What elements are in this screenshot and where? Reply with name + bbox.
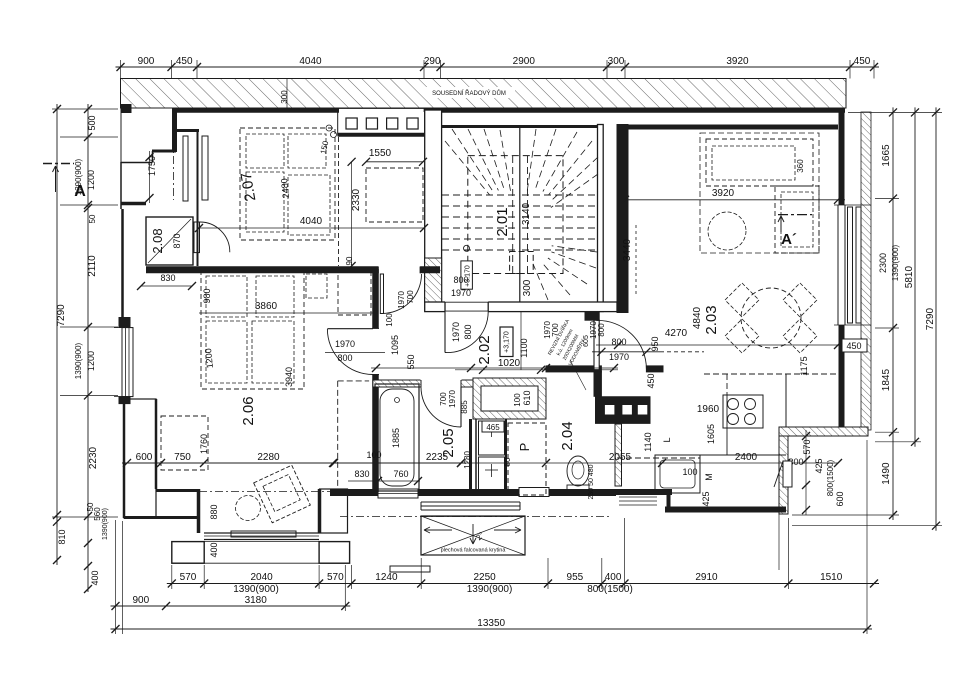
svg-text:900: 900 [138, 56, 155, 67]
svg-text:300: 300 [608, 56, 625, 67]
wall left between windows [119, 318, 130, 328]
dim 4270 [596, 344, 845, 346]
svg-text:7290: 7290 [56, 304, 67, 327]
wall niche top [152, 150, 176, 153]
right ext lines [848, 111, 942, 113]
svg-text:425: 425 [814, 458, 824, 473]
svg-text:570: 570 [327, 572, 344, 583]
dim chain bottom 4 [111, 628, 873, 630]
svg-text:1140: 1140 [643, 432, 653, 451]
svg-text:P: P [517, 443, 532, 452]
svg-text:3860: 3860 [255, 301, 278, 312]
wardrobe 2.06 [161, 416, 208, 470]
bottom ext lines [171, 565, 173, 589]
label 2.08 box [146, 217, 193, 265]
dim 4040 room [199, 227, 424, 229]
wall bath top hatched [373, 380, 473, 387]
svg-text:7290: 7290 [925, 308, 936, 331]
svg-text:2250: 2250 [473, 572, 496, 583]
window bottom 760 [378, 489, 418, 498]
svg-text:950: 950 [650, 336, 660, 351]
wall marks living [699, 300, 701, 406]
svg-text:290: 290 [424, 56, 441, 67]
svg-text:50: 50 [88, 214, 97, 223]
label 450 box right [842, 339, 867, 352]
svg-text:2480: 2480 [279, 178, 291, 199]
wall 2.07 left [197, 129, 199, 266]
party wall end cap [121, 104, 132, 113]
ext line bay left [121, 521, 123, 634]
svg-text:570: 570 [802, 439, 812, 454]
door 2.08 arc [200, 222, 230, 252]
svg-text:980: 980 [202, 288, 212, 303]
wardrobe 2.07 [366, 168, 423, 222]
dim chain left outer [56, 104, 58, 527]
hall dim line [371, 367, 618, 369]
svg-text:885: 885 [460, 400, 469, 414]
exit steps [619, 496, 657, 498]
shower lines 2.05 [380, 563, 420, 565]
dim left lower [87, 516, 89, 592]
svg-text:800: 800 [597, 323, 606, 337]
svg-text:450: 450 [646, 373, 656, 388]
svg-text:300: 300 [522, 279, 533, 296]
door hall nook 830 [377, 267, 379, 274]
wall left lower bottom [124, 516, 199, 519]
dim row 2.06 bottom [122, 462, 466, 464]
wall living top [617, 125, 838, 130]
svg-text:1390(900): 1390(900) [891, 244, 900, 281]
svg-text:3920: 3920 [726, 56, 749, 67]
kitchen door right [783, 461, 792, 487]
entrance steps [421, 501, 520, 503]
wall left upper [172, 108, 177, 152]
svg-text:1490: 1490 [881, 462, 892, 485]
svg-text:800: 800 [463, 324, 473, 339]
wall kitchen west hatched [615, 424, 622, 486]
wall stair right [598, 125, 604, 312]
svg-text:955: 955 [567, 572, 584, 583]
svg-text:3180: 3180 [245, 595, 268, 606]
dimension chain top [116, 66, 880, 68]
svg-text:450: 450 [854, 56, 871, 67]
svg-text:1100: 1100 [519, 338, 529, 357]
extension lines top [120, 60, 122, 79]
svg-text:2.08: 2.08 [150, 228, 165, 253]
svg-text:1550: 1550 [369, 148, 392, 159]
door 2.06-hall [372, 328, 379, 374]
svg-text:800: 800 [337, 353, 352, 363]
svg-text:800: 800 [611, 337, 626, 347]
svg-text:1200: 1200 [86, 170, 96, 190]
svg-text:750: 750 [174, 452, 191, 463]
svg-text:1970: 1970 [448, 390, 457, 408]
svg-text:2040: 2040 [250, 572, 273, 583]
dim 3860 [199, 312, 375, 314]
svg-text:A´: A´ [781, 231, 797, 248]
porch pillar left [172, 542, 204, 564]
high window strip box [338, 108, 425, 135]
svg-text:90: 90 [345, 256, 354, 265]
svg-text:1750: 1750 [147, 156, 157, 176]
door bath 2.05 [421, 379, 462, 389]
svg-text:4840: 4840 [692, 306, 703, 329]
plant circle [708, 212, 746, 250]
svg-text:1390(900): 1390(900) [74, 158, 83, 195]
kitchen lower counter [617, 457, 700, 459]
dim 1550 wardrobe [366, 161, 423, 163]
svg-text:610: 610 [522, 390, 532, 405]
svg-text:400: 400 [209, 542, 219, 557]
svg-text:1845: 1845 [881, 369, 892, 392]
kitchen counter dashes [704, 373, 838, 375]
wall 2.04 left partition [505, 419, 507, 495]
wardrobe 2.06 corner [338, 272, 371, 315]
svg-text:1970: 1970 [335, 339, 355, 349]
svg-text:800(1500): 800(1500) [587, 584, 633, 595]
svg-text:400: 400 [605, 572, 622, 583]
svg-text:605: 605 [583, 335, 590, 347]
closet left dashed [338, 137, 340, 266]
entrance door gap [519, 488, 549, 497]
porch slab lines [172, 541, 350, 543]
canopy arrows [424, 529, 452, 531]
svg-text:1970: 1970 [451, 288, 471, 298]
svg-text:760: 760 [393, 469, 408, 479]
wall living left [617, 125, 628, 313]
insulation strip right [861, 112, 871, 430]
dim chain left inner [87, 104, 89, 521]
label 465 box [482, 421, 504, 432]
svg-text:1240: 1240 [375, 572, 398, 583]
svg-text:450: 450 [176, 56, 193, 67]
svg-text:2055: 2055 [609, 452, 632, 463]
svg-text:2.06: 2.06 [240, 396, 257, 425]
svg-text:1970: 1970 [609, 352, 629, 362]
svg-text:1970: 1970 [589, 321, 598, 339]
wall stair bottom [425, 302, 617, 312]
cooktop [723, 395, 763, 428]
svg-text:4270: 4270 [665, 328, 688, 339]
dim 3920 sofa [618, 199, 845, 201]
washer P [508, 423, 546, 495]
wc 2.04 [567, 456, 589, 486]
bed room 2.07 [240, 128, 335, 240]
svg-text:2300: 2300 [878, 253, 888, 273]
wall bottom kitchen left [609, 489, 672, 495]
porch pillar right [319, 542, 350, 564]
dim chain bottom 1 [167, 583, 879, 585]
wall jamb below window [119, 397, 130, 404]
svg-text:M: M [704, 473, 714, 481]
wall 2.04 top [546, 366, 601, 372]
sofa 2.03 [706, 139, 813, 186]
wall step bottom right [779, 427, 868, 436]
svg-text:465: 465 [486, 423, 500, 432]
svg-text:2235: 2235 [426, 452, 449, 463]
svg-text:+3,170: +3,170 [504, 331, 511, 353]
wall bottom center [330, 489, 616, 496]
svg-text:1020: 1020 [498, 358, 521, 369]
hall SE corner wall [585, 312, 599, 321]
svg-text:2.01: 2.01 [494, 207, 511, 236]
svg-text:900: 900 [132, 595, 149, 606]
svg-text:1390(900): 1390(900) [233, 584, 279, 595]
svg-text:1175: 1175 [799, 356, 809, 375]
label +3,170 box [500, 327, 513, 357]
wall left mid [121, 209, 124, 324]
svg-text:1095: 1095 [390, 335, 400, 355]
dining set [741, 288, 801, 348]
wall 2.05 right [469, 419, 472, 492]
svg-text:1510: 1510 [820, 572, 843, 583]
armchair 2.06 [254, 465, 311, 523]
svg-text:3920: 3920 [712, 188, 735, 199]
wall bottom kitchen right [665, 507, 786, 513]
svg-text:560: 560 [93, 507, 102, 521]
dim 500 marks [52, 108, 118, 110]
high window squares [346, 118, 357, 129]
svg-text:800: 800 [453, 275, 468, 285]
wall left lower block [123, 397, 126, 518]
svg-text:4040: 4040 [299, 56, 322, 67]
svg-text:13350: 13350 [477, 618, 505, 629]
svg-text:2230: 2230 [88, 446, 99, 469]
sink cabinet 2.05 [479, 421, 505, 455]
dim chain right 3 [935, 107, 937, 530]
dim 1750 line [149, 151, 151, 203]
section marker A2 [778, 214, 812, 216]
glazing bar 1 [183, 136, 188, 201]
svg-text:2400: 2400 [735, 452, 758, 463]
svg-text:3940: 3940 [284, 367, 294, 387]
dim chain bottom 3 [111, 605, 351, 607]
wall top exterior left [172, 108, 339, 113]
radiator valve circles [326, 125, 332, 131]
svg-text:2280: 2280 [257, 452, 280, 463]
door mat 2.06 [231, 531, 296, 537]
kitchen counter right [785, 374, 787, 427]
svg-text:1970: 1970 [451, 322, 461, 342]
svg-text:2110: 2110 [87, 255, 98, 277]
door hall-corridor leaf [594, 320, 599, 370]
wall stair left [425, 110, 442, 302]
svg-text:2.03: 2.03 [703, 305, 720, 334]
terrace door 2040 [204, 532, 319, 534]
door gap stair-hall [445, 301, 488, 314]
svg-text:5810: 5810 [904, 266, 915, 289]
svg-text:880: 880 [209, 504, 219, 519]
svg-text:100: 100 [385, 313, 394, 327]
svg-text:300: 300 [280, 90, 289, 104]
svg-text:700: 700 [439, 392, 448, 406]
svg-text:4040: 4040 [300, 216, 323, 227]
glazing bar 2 [202, 136, 208, 200]
bedside table 2.06 [306, 274, 327, 298]
svg-text:600: 600 [136, 452, 153, 463]
svg-text:1200: 1200 [86, 351, 96, 371]
dim 830 760 bottom [348, 480, 420, 482]
door hall-corridor arc [597, 320, 647, 368]
window right 2300 [837, 205, 839, 325]
bed room 2.06 [201, 269, 304, 389]
svg-text:1970: 1970 [397, 291, 406, 309]
axis dashdot entrance [173, 140, 175, 200]
window left 1200 [122, 328, 133, 397]
wall 2.07 bottom / 2.06 top [146, 266, 378, 273]
door stair-hall arc [444, 312, 446, 353]
dashed zone 2.06 SE [337, 381, 339, 488]
hatched band neighbour house [121, 79, 847, 109]
section dashdot bay [199, 491, 348, 493]
svg-text:500: 500 [87, 115, 97, 130]
shaft walls hatched [473, 378, 546, 419]
svg-text:2330: 2330 [351, 188, 362, 211]
svg-text:550: 550 [406, 354, 416, 369]
svg-text:1960: 1960 [697, 404, 720, 415]
section marker A1 [43, 163, 74, 165]
wall right upper [839, 111, 845, 205]
svg-text:800(1500): 800(1500) [826, 459, 835, 496]
svg-text:570: 570 [180, 572, 197, 583]
svg-text:450: 450 [846, 341, 861, 351]
svg-text:100: 100 [513, 393, 522, 407]
svg-text:2.02: 2.02 [476, 335, 493, 364]
svg-text:400: 400 [90, 570, 100, 585]
svg-text:1390(900): 1390(900) [74, 342, 83, 379]
dim chain right 1 [892, 107, 894, 520]
svg-text:1390(900): 1390(900) [102, 508, 109, 540]
porch canopy [421, 516, 525, 555]
svg-text:425: 425 [701, 491, 711, 506]
door 2.08 leaf [194, 222, 200, 253]
wall stair top [442, 125, 599, 128]
svg-text:1665: 1665 [881, 144, 892, 167]
bathtub [375, 384, 419, 491]
svg-text:700: 700 [406, 290, 415, 304]
dim chain right 2 [914, 107, 916, 446]
svg-text:600: 600 [835, 491, 845, 506]
wall top exterior right [424, 108, 845, 113]
svg-text:870: 870 [172, 233, 182, 248]
svg-text:830: 830 [160, 273, 175, 283]
svg-text:1605: 1605 [706, 424, 716, 444]
wall entrance niche [152, 151, 154, 162]
svg-text:700: 700 [551, 323, 560, 337]
svg-text:1200: 1200 [203, 348, 215, 369]
svg-text:SOUSEDNÍ ŘADOVÝ DŮM: SOUSEDNÍ ŘADOVÝ DŮM [432, 89, 506, 97]
svg-text:2.04: 2.04 [559, 421, 576, 450]
svg-text:1885: 1885 [391, 428, 401, 448]
svg-text:100: 100 [366, 450, 381, 460]
svg-text:830: 830 [354, 469, 369, 479]
chimney block [595, 396, 651, 424]
wall right lower [839, 325, 845, 430]
section dashdot porch [340, 516, 610, 518]
wall 2.06 right / hall left [372, 269, 379, 492]
wall bay left [197, 489, 201, 533]
svg-text:2910: 2910 [695, 572, 718, 583]
svg-text:1760: 1760 [199, 434, 209, 454]
svg-text:plechová falcovaná krytina: plechová falcovaná krytina [441, 548, 507, 554]
kitchen dim line [334, 462, 838, 464]
staircase 2.01 [519, 128, 521, 302]
wall bay right [318, 489, 322, 533]
wall under window strip [338, 133, 425, 137]
svg-text:1390(900): 1390(900) [467, 584, 513, 595]
svg-text:3140: 3140 [521, 202, 532, 225]
svg-text:3440: 3440 [622, 238, 633, 261]
boundary line left [120, 108, 122, 162]
svg-text:360: 360 [796, 159, 805, 173]
wall corridor west [594, 372, 601, 396]
svg-text:L: L [662, 437, 672, 442]
svg-text:2900: 2900 [513, 56, 536, 67]
svg-text:810: 810 [57, 529, 67, 544]
wall 2.07 top step [174, 129, 199, 132]
wall right of exit [779, 436, 788, 514]
